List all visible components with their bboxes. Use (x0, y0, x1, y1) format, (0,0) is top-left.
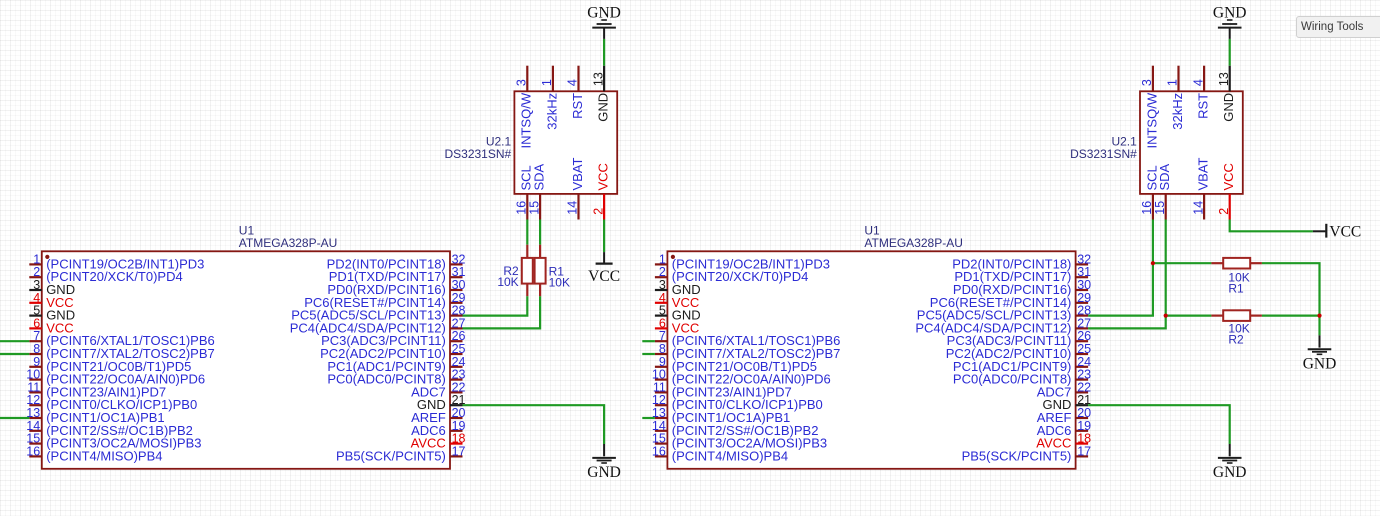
U2.1 (right) pin 16 (SCL) bottom (1140, 165, 1159, 219)
svg-text:VBAT: VBAT (1196, 157, 1211, 190)
ground symbol below resistors (net GND) (1303, 316, 1337, 373)
svg-text:1: 1 (540, 79, 554, 86)
U2.1 pin 16 (SCL) bottom (515, 165, 534, 219)
svg-text:10K: 10K (497, 275, 518, 289)
svg-text:15: 15 (527, 201, 541, 215)
U1 pin 25 (PC2(ADC2/PCINT10)) (320, 342, 465, 361)
svg-text:DS3231SN#: DS3231SN# (444, 147, 511, 161)
U1 (right) pin 4 (VCC) (655, 291, 699, 310)
svg-text:17: 17 (1077, 444, 1091, 458)
U1 (right) pin 13 ((PCINT1/OC1A)PB1) (652, 406, 790, 425)
U2.1 (right) pin 13 (GND) top (1217, 66, 1236, 122)
U1 (right) pin 24 (PC1(ADC1/PCINT9)) (953, 355, 1091, 374)
ground symbol bottom right (net GND) (1213, 444, 1247, 481)
U1 pin 9 ((PCINT21/OC0B/T1)PD5) (29, 355, 191, 374)
U1 (right) pin 3 (GND) (655, 278, 701, 297)
svg-text:2: 2 (591, 208, 605, 215)
svg-text:17: 17 (452, 444, 466, 458)
svg-text:GND: GND (1213, 464, 1247, 481)
U1 pin 2 ((PCINT20/XCK/T0)PD4) (29, 265, 182, 284)
U1 pin 12 ((PCINT0/CLKO/ICP1)PB0) (26, 393, 197, 412)
svg-text:1: 1 (1166, 79, 1180, 86)
U2.1 pin 14 (VBAT) bottom (566, 157, 585, 219)
svg-text:2: 2 (1217, 208, 1231, 215)
U1 (right) pin 26 (PC3(ADC3/PCINT11)) (947, 329, 1091, 348)
svg-text:3: 3 (1140, 79, 1154, 86)
U1 pin 6 (VCC) (29, 316, 73, 335)
label R2 10K (497, 264, 519, 289)
U1 pin 32 (PD2(INT0/PCINT18)) (327, 252, 466, 271)
U1 pin 22 (ADC7) (411, 380, 465, 399)
U1 pin 13 ((PCINT1/OC1A)PB1) (26, 406, 164, 425)
label 10K R1 (right) (1228, 271, 1249, 296)
svg-text:VCC: VCC (588, 268, 620, 285)
reference designator U1 value ATMEGA328P-AU (239, 224, 337, 250)
junction on SDA at R2 branch (1164, 314, 1168, 318)
svg-text:PB5(SCK/PCINT5): PB5(SCK/PCINT5) (336, 448, 446, 463)
wire from SCL junction to resistor R1 (right) (1153, 262, 1212, 264)
U1 (right) pin 18 (AVCC) (1036, 432, 1091, 451)
wire net to U1 pin 13 (0, 417, 29, 419)
U1 pin 4 (VCC) (29, 291, 73, 310)
U1 (right) pin 21 (GND) (1043, 393, 1092, 412)
wire stub right U1 pin 7 (642, 340, 655, 342)
svg-text:3: 3 (515, 79, 529, 86)
wire net XTAL1 to U1 pin 7 (0, 340, 29, 342)
svg-text:14: 14 (566, 201, 580, 215)
svg-text:15: 15 (1153, 201, 1167, 215)
IC U1 (right) ATMEGA328P-AU body rectangle (667, 251, 1075, 468)
U1 pin 27 (PC4(ADC4/SDA/PCINT12)) (290, 316, 466, 335)
wire from R1 right end down to R2 right end (1262, 263, 1320, 315)
svg-text:ATMEGA328P-AU: ATMEGA328P-AU (864, 236, 962, 250)
U1 (right) pin 7 ((PCINT6/XTAL1/TOSC1)PB6) (655, 329, 840, 348)
svg-text:32kHz: 32kHz (544, 93, 559, 130)
svg-text:RST: RST (570, 93, 585, 119)
label R1 10K (549, 264, 570, 289)
svg-text:13: 13 (591, 72, 605, 86)
U1 (right) pin 29 (PC6(RESET#/PCINT14)) (930, 291, 1091, 310)
U2.1 pin 15 (SDA) bottom (527, 163, 546, 219)
U1 (right) pin 2 ((PCINT20/XCK/T0)PD4) (655, 265, 808, 284)
U1 (right) pin 8 ((PCINT7/XTAL2/TOSC2)PB7) (655, 342, 840, 361)
U2.1 pin 1 (32kHz) top (540, 66, 559, 130)
IC U2.1 (right) DS3231SN# rectangle (1140, 91, 1243, 194)
U1 pin 3 (GND) (29, 278, 75, 297)
svg-text:16: 16 (26, 444, 40, 458)
U1 pin 21 (GND) (417, 393, 466, 412)
U1 (right) pin 30 (PD0(RXD/PCINT16)) (953, 278, 1091, 297)
resistor R1 10K (horizontal right) (1211, 258, 1262, 269)
U1 (right) pin 19 (ADC6) (1037, 419, 1091, 438)
U2.1 pin 2 (VCC) bottom (591, 163, 610, 219)
wire net SDA: right U1 pin 27 up to U2.1 pin 15 (1088, 220, 1166, 329)
svg-text:GND: GND (1213, 5, 1247, 22)
svg-text:GND: GND (1303, 356, 1337, 373)
svg-text:GND: GND (1221, 93, 1236, 122)
ground symbol above right U2.1 pin 13 (net GND) (1213, 5, 1247, 66)
svg-text:GND: GND (596, 93, 611, 122)
svg-text:INTSQ/W: INTSQ/W (1144, 92, 1159, 148)
U1 pin 15 ((PCINT3/OC2A/MOSI)PB3) (26, 432, 201, 451)
U2.1 (right) pin 14 (VBAT) bottom (1191, 157, 1210, 219)
svg-text:32kHz: 32kHz (1170, 93, 1185, 130)
svg-text:DS3231SN#: DS3231SN# (1070, 147, 1137, 161)
U1 (right) pin 15 ((PCINT3/OC2A/MOSI)PB3) (652, 432, 827, 451)
U1 (right) pin 10 ((PCINT22/OC0A/AIN0)PD6) (652, 368, 831, 387)
wire net XTAL2 to U1 pin 8 (0, 353, 29, 355)
svg-text:R2: R2 (1228, 333, 1244, 347)
U1 (right) pin 5 (GND) (655, 304, 701, 323)
svg-text:16: 16 (652, 444, 666, 458)
U1 pin 20 (AREF) (411, 406, 465, 425)
svg-text:13: 13 (1217, 72, 1231, 86)
U2.1 pin 13 (GND) top (591, 66, 610, 122)
wire from R2 (right) to GND junction (1262, 315, 1320, 317)
U1 pin 5 (GND) (29, 304, 75, 323)
U1 (right) pin 27 (PC4(ADC4/SDA/PCINT12)) (915, 316, 1091, 335)
U1 pin 26 (PC3(ADC3/PCINT11)) (321, 329, 465, 348)
U1 (right) pin 25 (PC2(ADC2/PCINT10)) (946, 342, 1091, 361)
U1 pin 16 ((PCINT4/MISO)PB4) (26, 444, 162, 463)
U1 pin 11 ((PCINT23/AIN1)PD7) (27, 380, 166, 399)
U1 pin 31 (PD1(TXD/PCINT17)) (329, 265, 466, 284)
U1 pin 10 ((PCINT22/OC0A/AIN0)PD6) (26, 368, 205, 387)
U1 pin 24 (PC1(ADC1/PCINT9)) (327, 355, 465, 374)
U2.1 (right) pin 15 (SDA) bottom (1153, 163, 1172, 219)
U1 (right) pin 32 (PD2(INT0/PCINT18)) (952, 252, 1091, 271)
U1 (right) pin 16 ((PCINT4/MISO)PB4) (652, 444, 788, 463)
svg-text:VBAT: VBAT (570, 157, 585, 190)
wire from SDA junction to resistor R2 (right) (1166, 315, 1212, 317)
ground symbol bottom (net GND) (587, 444, 621, 481)
svg-text:VCC: VCC (1221, 163, 1236, 190)
svg-text:(PCINT4/MISO)PB4: (PCINT4/MISO)PB4 (672, 448, 788, 463)
resistor R2 10K (horizontal right) (1211, 310, 1262, 321)
IC U2.1 DS3231SN# rectangle (514, 91, 617, 194)
U2.1 (right) pin 3 (INTSQ/W) top (1140, 66, 1159, 149)
svg-text:R1: R1 (1228, 281, 1244, 295)
label 10K R2 (right) (1228, 322, 1249, 347)
wire from R1 to U1 pin 27 (net SDA) (463, 296, 541, 328)
svg-text:10K: 10K (549, 275, 570, 289)
svg-text:(PCINT4/MISO)PB4: (PCINT4/MISO)PB4 (46, 448, 162, 463)
U2.1 (right) pin 1 (32kHz) top (1166, 66, 1185, 130)
svg-text:SDA: SDA (532, 163, 547, 190)
power symbol VCC right (net VCC) with wire from U2.1 pin 2 (1230, 220, 1362, 241)
reference designator U2.1 (right) value DS3231SN# (1070, 135, 1137, 161)
U1 (right) pin 23 (PC0(ADC0/PCINT8)) (953, 368, 1091, 387)
junction on SCL at R1 branch (1151, 261, 1155, 265)
U1 pin 30 (PD0(RXD/PCINT16)) (327, 278, 465, 297)
U2.1 (right) pin 2 (VCC) bottom (1217, 163, 1236, 219)
U1 (right) pin 1 ((PCINT19/OC2B/INT1)PD3) (655, 252, 830, 271)
wire stub right U1 pin 8 (642, 353, 655, 355)
U2.1 (right) pin 4 (RST) top (1191, 66, 1210, 119)
svg-text:4: 4 (1191, 79, 1205, 86)
svg-text:GND: GND (587, 5, 621, 22)
reference designator U2.1 value DS3231SN# (444, 135, 511, 161)
wire SCL from U2.1 pin 16 to resistor R2 (526, 220, 528, 245)
svg-text:SDA: SDA (1157, 163, 1172, 190)
U1 pin 8 ((PCINT7/XTAL2/TOSC2)PB7) (29, 342, 214, 361)
Wiring Tools tooltip (1296, 16, 1380, 38)
U1 pin 29 (PC6(RESET#/PCINT14)) (304, 291, 465, 310)
wire from right U1 pin 21 to ground (net GND) (1088, 405, 1230, 444)
U1 (right) pin 20 (AREF) (1037, 406, 1091, 425)
U1 pin 23 (PC0(ADC0/PCINT8)) (327, 368, 465, 387)
wire from U1 pin 21 to ground (net GND) (463, 405, 605, 444)
svg-text:RST: RST (1196, 93, 1211, 119)
U1 pin 19 (ADC6) (411, 419, 465, 438)
wire from R2 to U1 pin 28 (net SCL) (463, 296, 528, 315)
U1 (right) pin 6 (VCC) (655, 316, 699, 335)
svg-text:VCC: VCC (596, 163, 611, 190)
U1 pin 14 ((PCINT2/SS#/OC1B)PB2) (26, 419, 193, 438)
resistor R2 10K (vertical) (522, 245, 533, 297)
reference designator U1 (right) value ATMEGA328P-AU (864, 224, 962, 250)
svg-text:14: 14 (1191, 201, 1205, 215)
U1 (right) pin 17 (PB5(SCK/PCINT5)) (962, 444, 1092, 463)
svg-text:4: 4 (566, 79, 580, 86)
resistor R1 10K (vertical) (535, 245, 546, 297)
svg-text:PB5(SCK/PCINT5): PB5(SCK/PCINT5) (962, 448, 1072, 463)
U1 (right) pin 11 ((PCINT23/AIN1)PD7) (653, 380, 792, 399)
ground symbol above U2.1 pin 13 (net GND) (587, 5, 621, 66)
U1 (right) pin 31 (PD1(TXD/PCINT17)) (954, 265, 1091, 284)
U1 (right) pin 28 (PC5(ADC5/SCL/PCINT13)) (917, 304, 1091, 323)
U1 pin 1 ((PCINT19/OC2B/INT1)PD3) (29, 252, 204, 271)
junction at R1/R2 right ends (1317, 314, 1321, 318)
U1 (right) pin 22 (ADC7) (1037, 380, 1091, 399)
U2.1 pin 4 (RST) top (566, 66, 585, 119)
wire net SCL: right U1 pin 28 up to U2.1 pin 16 (1088, 220, 1153, 316)
IC U1 ATMEGA328P-AU body rectangle (42, 251, 450, 468)
U1 (right) pin 12 ((PCINT0/CLKO/ICP1)PB0) (652, 393, 823, 412)
svg-text:VCC: VCC (1329, 223, 1361, 240)
U1 pin 17 (PB5(SCK/PCINT5)) (336, 444, 466, 463)
U1 (right) pin 14 ((PCINT2/SS#/OC1B)PB2) (652, 419, 819, 438)
U1 pin 18 (AVCC) (411, 432, 466, 451)
U1 pin 7 ((PCINT6/XTAL1/TOSC1)PB6) (29, 329, 214, 348)
U2.1 pin 3 (INTSQ/W) top (515, 66, 534, 149)
svg-text:INTSQ/W: INTSQ/W (519, 92, 534, 148)
U1 (right) pin 9 ((PCINT21/OC0B/T1)PD5) (655, 355, 817, 374)
power symbol VCC below U2.1 pin 2 (588, 220, 620, 286)
svg-text:GND: GND (587, 464, 621, 481)
wire stub right U1 pin 13 (642, 417, 655, 419)
U1 pin 28 (PC5(ADC5/SCL/PCINT13)) (291, 304, 465, 323)
wire SDA from U2.1 pin 15 to resistor R1 (539, 220, 541, 245)
svg-text:ATMEGA328P-AU: ATMEGA328P-AU (239, 236, 337, 250)
